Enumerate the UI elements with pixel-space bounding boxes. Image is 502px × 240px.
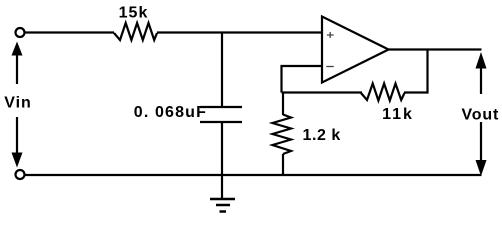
resistor R3 zigzag (1.2 k to ground) [282,93,284,116]
Vin arrow down head [12,153,23,168]
output terminal (bottom left circle) [16,170,25,179]
node: junction of capacitor with top wire [221,33,223,108]
op-amp - input marker [326,66,334,68]
Vout arrow upper shaft [480,68,482,94]
svg-text:11k: 11k [382,106,414,123]
capacitor C1 top plate [200,106,242,108]
Vin arrow lower shaft [16,117,18,153]
svg-text:Vin: Vin [4,95,32,112]
wire: feedback node to resistor R2 [282,91,363,93]
resistor R2 zigzag (11k feedback) [361,84,405,101]
Vout arrow lower shaft [480,122,482,161]
ground stem [221,175,223,199]
Vout arrow down head [476,160,487,176]
Vin arrow up head [12,42,23,56]
svg-text:15k: 15k [119,5,149,22]
wire: bottom rail [25,174,482,176]
wire: resistor R2 to output branch corner [404,50,428,93]
op-amp U1 triangle [322,17,389,83]
input terminal (top left circle) [16,28,25,37]
op-amp + input marker [327,32,334,38]
wire: resistor R1 to op-amp + input [157,31,322,33]
ground bar 1 [210,198,235,201]
wire: capacitor C1 to bottom rail [221,122,223,175]
wire: op-amp output to Vout [388,48,482,50]
resistor R1 zigzag [114,23,157,40]
Vin arrow upper shaft [16,55,18,84]
wire: op-amp - input to feedback node [282,66,323,93]
capacitor C1 bottom plate [200,121,242,123]
svg-text:Vout: Vout [462,107,500,124]
ground bar 3 [220,210,227,213]
wire: top-left terminal to resistor R1 [25,31,115,33]
Vout arrow up head [476,52,487,69]
svg-text:0. 068uF: 0. 068uF [134,104,207,121]
svg-text:1.2 k: 1.2 k [303,127,341,144]
ground bar 2 [216,204,230,207]
